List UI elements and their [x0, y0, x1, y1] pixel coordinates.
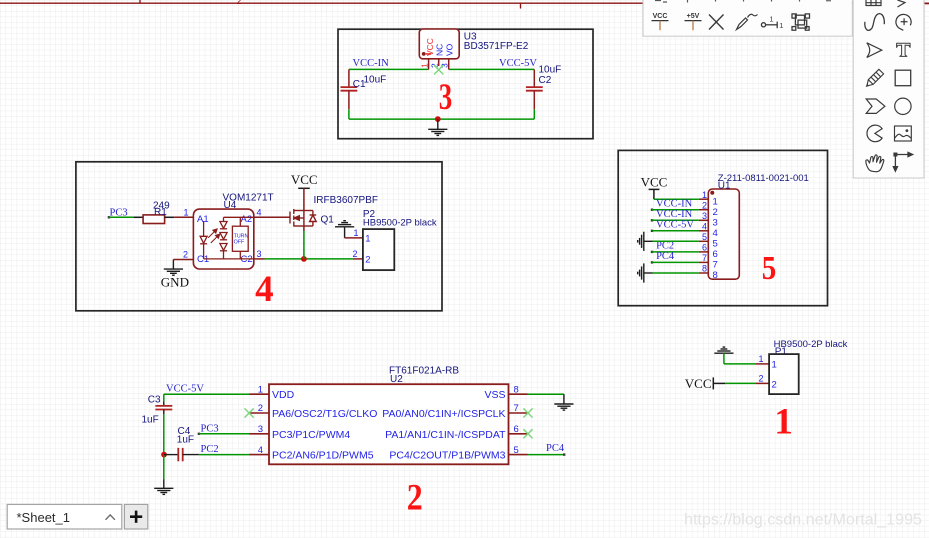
- wire P1 pin1: [724, 363, 755, 365]
- drawing tools panel: [853, 0, 924, 178]
- U2 pin6 stub: [509, 433, 528, 435]
- svg-text:1: 1: [758, 354, 763, 364]
- svg-text:*Sheet_1: *Sheet_1: [17, 510, 71, 525]
- svg-text:10uF: 10uF: [539, 65, 562, 76]
- icon pencil: [867, 69, 884, 86]
- svg-text:1uF: 1uF: [142, 415, 159, 426]
- icon spline: [865, 14, 885, 31]
- svg-text:VCC-5V: VCC-5V: [166, 384, 204, 395]
- svg-text:HB9500-2P black: HB9500-2P black: [363, 218, 437, 229]
- svg-text:2: 2: [237, 0, 242, 6]
- U1 pin4 stub: [699, 230, 708, 232]
- svg-text:VOM1271T: VOM1271T: [223, 193, 274, 204]
- svg-text:https://blog.csdn.net/Mortal_1: https://blog.csdn.net/Mortal_1995: [684, 511, 922, 529]
- no-connect X U2 pin7: [523, 408, 532, 417]
- wire U1 pin7 net PC4: [651, 261, 653, 263]
- wire P1 pin2: [725, 382, 755, 384]
- icon text T: [897, 43, 911, 56]
- wire VCC-5V to U2 pin1: [164, 393, 249, 395]
- svg-text:VDD: VDD: [272, 389, 295, 401]
- svg-text:4: 4: [257, 207, 262, 217]
- svg-text:5: 5: [702, 232, 707, 242]
- U3 pin3 stub: [448, 59, 450, 70]
- svg-text:VCC-5V: VCC-5V: [499, 58, 537, 69]
- icon image: [895, 126, 912, 141]
- svg-text:3: 3: [713, 218, 718, 229]
- wire U1 pin1 from VCC: [654, 198, 699, 200]
- U1 pin2 stub: [699, 209, 708, 211]
- ground block3: [437, 119, 439, 129]
- U1 pin3 stub: [699, 219, 708, 221]
- svg-text:8: 8: [514, 384, 519, 395]
- svg-text:FT61F021A-RB: FT61F021A-RB: [389, 365, 459, 376]
- svg-text:3: 3: [439, 77, 453, 118]
- no-connect X U2 pin2: [245, 408, 254, 417]
- svg-text:Z-211-0811-0021-001: Z-211-0811-0021-001: [718, 173, 809, 184]
- svg-text:PC2: PC2: [201, 444, 219, 455]
- svg-text:6: 6: [702, 243, 707, 253]
- svg-text:NC: NC: [435, 44, 445, 56]
- U3 pin2 stub: [438, 59, 440, 66]
- U1 pin6 stub: [699, 251, 708, 253]
- U4 pin4 wire to Q1 gate: [254, 216, 290, 218]
- svg-text:GND: GND: [161, 274, 189, 289]
- U4 input LED: [200, 221, 207, 259]
- svg-text:1: 1: [183, 207, 188, 217]
- icon pie/arc: [867, 125, 882, 142]
- U2 pin5 stub: [509, 454, 528, 456]
- icon arc/circle-plus: [896, 14, 911, 30]
- svg-text:7: 7: [713, 260, 718, 271]
- svg-text:2: 2: [258, 403, 263, 414]
- svg-text:7: 7: [514, 403, 519, 414]
- icon rectangle: [895, 70, 911, 86]
- svg-text:1: 1: [702, 190, 707, 200]
- svg-text:8: 8: [702, 264, 707, 274]
- svg-text:1: 1: [772, 360, 777, 371]
- svg-text:5: 5: [514, 445, 519, 456]
- ground GND block4: [164, 269, 183, 275]
- svg-text:2: 2: [365, 254, 370, 265]
- icon net port: [761, 15, 783, 31]
- capacitor C4: [164, 426, 199, 461]
- svg-text:VCC: VCC: [425, 38, 435, 56]
- U2 pin7 stub: [509, 412, 528, 414]
- ground block2 right: [554, 404, 573, 410]
- svg-text:2: 2: [758, 373, 763, 383]
- wiring tools panel: [643, 0, 852, 36]
- U1 pin1 dot marker: [710, 191, 714, 195]
- U4 output rails: [224, 216, 254, 218]
- wire PC4 from U2 pin5: [528, 454, 565, 456]
- op U3 regulator body: [419, 29, 459, 59]
- svg-text:BD3571FP-E2: BD3571FP-E2: [464, 41, 529, 52]
- block 4 border box: [76, 162, 442, 311]
- U4 pin2 wire to GND: [173, 259, 193, 261]
- block 5 border box: [618, 150, 827, 305]
- svg-text:PA1/AN1/C1IN-/ICSPDAT: PA1/AN1/C1IN-/ICSPDAT: [385, 429, 506, 441]
- svg-text:7: 7: [702, 253, 707, 263]
- icon no-connect X: [709, 15, 724, 30]
- ground above P2 pin1 (inverted): [335, 221, 354, 227]
- new sheet + button: [124, 504, 147, 529]
- svg-text:2: 2: [702, 200, 707, 210]
- svg-text:1: 1: [353, 228, 358, 238]
- MCU U2 body: [269, 384, 509, 464]
- U1 pin7 stub: [699, 261, 708, 263]
- junction dot block2: [161, 452, 167, 458]
- junction dot under Q1: [301, 256, 307, 262]
- svg-text:VCC-IN: VCC-IN: [656, 199, 693, 210]
- svg-text:5: 5: [713, 239, 718, 250]
- optocoupler U4 body: [193, 209, 253, 269]
- partial icons top row: [866, 0, 905, 7]
- wire U1 pin2 net VCC-IN: [651, 209, 653, 211]
- U4 photodiode stack: [220, 217, 227, 259]
- no-connect X on U3 pin2: [434, 65, 443, 74]
- svg-text:6: 6: [514, 424, 519, 435]
- wire Q1 source down: [303, 226, 305, 231]
- svg-text:1: 1: [774, 402, 793, 443]
- icon VCC flag: [652, 13, 669, 30]
- wire VCC-IN horizontal: [349, 68, 429, 70]
- svg-text:VCC: VCC: [291, 172, 318, 187]
- wire R1 to U4: [165, 216, 175, 218]
- U1 pin1 stub: [699, 198, 708, 200]
- ground above P1 pin1 (inverted): [714, 347, 733, 353]
- svg-text:PA0/AN0/C1IN+/ICSPCLK: PA0/AN0/C1IN+/ICSPCLK: [382, 408, 505, 420]
- svg-text:3: 3: [258, 424, 263, 435]
- wire VSS to ground: [528, 393, 564, 395]
- svg-text:1: 1: [365, 234, 370, 245]
- svg-text:A2: A2: [241, 214, 253, 225]
- svg-text:2: 2: [772, 379, 777, 390]
- svg-text:1uF: 1uF: [177, 434, 194, 445]
- svg-text:4: 4: [713, 228, 718, 239]
- sheet tab bar: [7, 504, 122, 529]
- svg-text:1: 1: [419, 63, 429, 68]
- svg-text:1: 1: [713, 196, 718, 207]
- svg-text:PC4/C2OUT/P1B/PWM3: PC4/C2OUT/P1B/PWM3: [389, 450, 505, 462]
- svg-text:8: 8: [713, 270, 718, 281]
- svg-text:PC4: PC4: [546, 443, 565, 454]
- svg-text:VCC: VCC: [685, 376, 712, 391]
- svg-text:1: 1: [258, 384, 263, 395]
- svg-text:2: 2: [713, 207, 718, 218]
- svg-text:PC2/AN6/P1D/PWM5: PC2/AN6/P1D/PWM5: [272, 450, 374, 462]
- connector P2: [363, 229, 394, 270]
- svg-text:10uF: 10uF: [364, 75, 387, 86]
- svg-text:4: 4: [702, 222, 707, 232]
- svg-text:VCC: VCC: [641, 175, 668, 190]
- svg-text:+5V: +5V: [687, 13, 700, 20]
- wire down to ground: [163, 455, 165, 480]
- U2 pin3 stub: [249, 433, 269, 435]
- svg-text:PC3/P1C/PWM4: PC3/P1C/PWM4: [272, 429, 350, 441]
- svg-text:5: 5: [762, 250, 777, 287]
- wire U1 pin6 net PC2: [651, 251, 653, 253]
- connector P1 body: [769, 354, 799, 394]
- svg-text:6: 6: [713, 249, 718, 260]
- svg-text:PA6/OSC2/T1G/CLKO: PA6/OSC2/T1G/CLKO: [272, 408, 377, 420]
- sheet border right corner thick segment: [925, 3, 929, 5]
- svg-text:2: 2: [352, 249, 357, 259]
- U1 pin5 stub: [699, 240, 708, 242]
- capacitor C2: [526, 65, 561, 120]
- U1 pin8 stub: [699, 272, 708, 274]
- svg-text:C2: C2: [539, 75, 552, 86]
- U4 emission arrows: [208, 229, 220, 243]
- icon line/polyline arrow: [893, 152, 912, 171]
- svg-text:PC2: PC2: [656, 241, 674, 252]
- svg-text:3: 3: [702, 211, 707, 221]
- U3 pin1 dot marker: [422, 52, 426, 56]
- svg-text:1: 1: [779, 21, 783, 30]
- svg-text:2: 2: [407, 478, 423, 519]
- partial icon bottoms top row: [655, 0, 831, 3]
- svg-text:4: 4: [258, 445, 263, 456]
- wire U1 pin3 net VCC-IN: [651, 219, 653, 221]
- wire U4 pin3 to P2: [265, 258, 353, 260]
- resistor R1: [143, 215, 165, 224]
- icon netlabel/group: [792, 14, 810, 30]
- U2 pin2 stub: [249, 412, 269, 414]
- svg-text:4: 4: [255, 269, 274, 310]
- svg-text:2: 2: [183, 250, 188, 260]
- icon arrow: [867, 43, 882, 58]
- capacitor C1: [341, 69, 387, 119]
- wire PC3 to R1: [108, 216, 110, 218]
- icon polygon: [866, 99, 885, 113]
- icon ellipse: [895, 98, 911, 114]
- svg-text:Q1: Q1: [321, 215, 335, 226]
- wire into P2 pin2: [353, 258, 363, 260]
- wire bottom rail block3: [349, 118, 534, 120]
- svg-text:VCC-IN: VCC-IN: [656, 209, 693, 220]
- transistor Q1 IRFB3607PBF: [290, 209, 316, 227]
- svg-text:IRFB3607PBF: IRFB3607PBF: [314, 195, 378, 206]
- no-connect X U2 pin6: [523, 429, 532, 438]
- U2 pin8 stub: [509, 393, 528, 395]
- block 3 border box: [338, 29, 593, 139]
- U2 pin1 stub: [249, 393, 269, 395]
- connector U1 body: [708, 189, 739, 279]
- svg-text:OFF: OFF: [234, 240, 245, 246]
- sheet border top line: [0, 0, 929, 9]
- svg-text:PC4: PC4: [656, 251, 675, 262]
- wire U1 pin4 net VCC-5V: [651, 230, 653, 232]
- icon hand/drag: [864, 153, 884, 172]
- svg-text:VCC-5V: VCC-5V: [656, 220, 694, 231]
- svg-text:3: 3: [257, 249, 262, 259]
- junction dot: [435, 116, 441, 122]
- svg-text:PC3: PC3: [201, 424, 219, 435]
- U3 pin1 stub: [428, 59, 430, 70]
- svg-text:C3: C3: [148, 395, 161, 406]
- wire P2 pin1: [345, 237, 363, 239]
- svg-text:VCC: VCC: [653, 13, 668, 20]
- U2 pin4 stub: [249, 454, 269, 456]
- U3 pin1 clock tick: [426, 53, 431, 55]
- svg-text:A1: A1: [197, 214, 209, 225]
- capacitor C3: [142, 394, 173, 454]
- wire VCC-5V horizontal: [449, 68, 535, 70]
- ground on U1 pin5: [638, 232, 644, 251]
- ground on U1 pin8: [638, 263, 644, 282]
- svg-text:VO: VO: [444, 43, 454, 56]
- U4 turn-off box: [232, 226, 248, 251]
- svg-text:VSS: VSS: [484, 389, 505, 401]
- svg-text:VCC-IN: VCC-IN: [353, 58, 390, 69]
- ground block2 left: [154, 488, 173, 494]
- svg-text:1: 1: [769, 15, 773, 24]
- icon pen/probe: [737, 14, 758, 29]
- U4 pin3 stub: [254, 258, 265, 260]
- icon +5V flag: [685, 13, 702, 30]
